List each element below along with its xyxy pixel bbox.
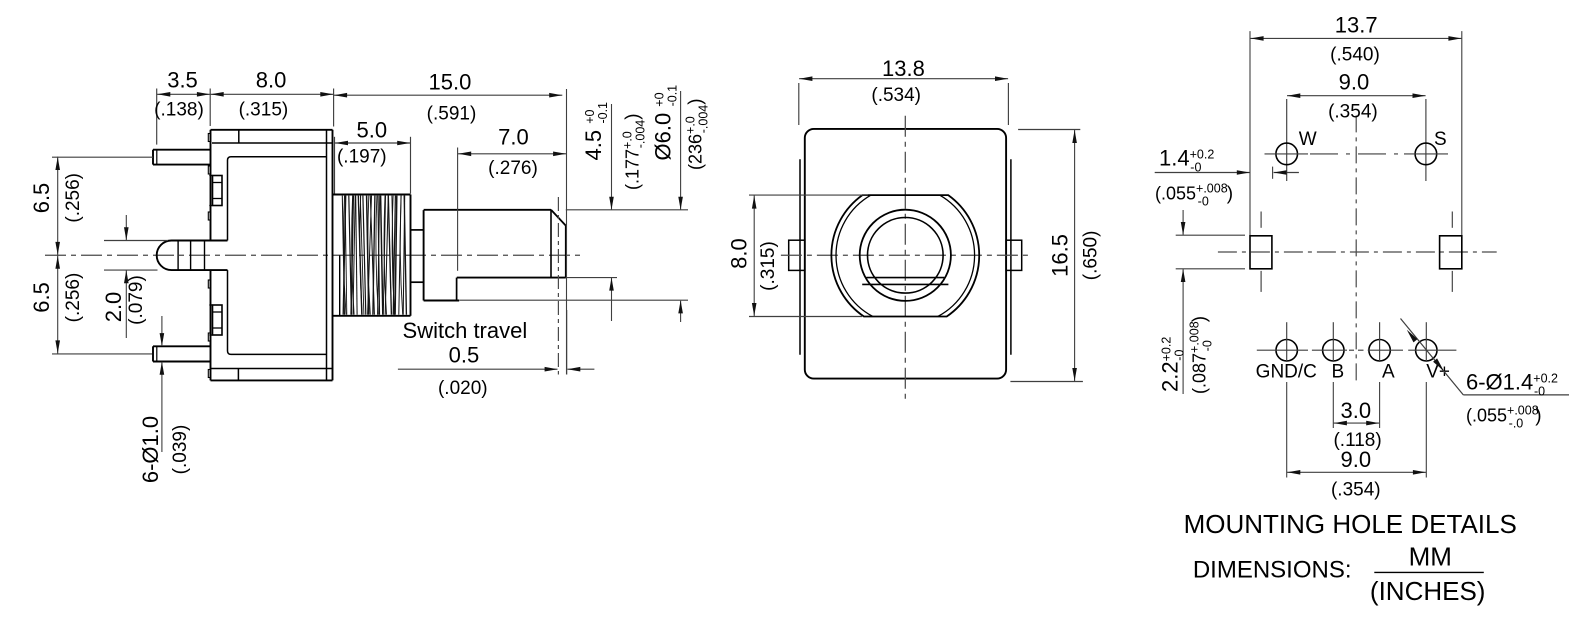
svg-text:9.0: 9.0 bbox=[1339, 70, 1370, 95]
svg-text:(.197): (.197) bbox=[337, 146, 387, 167]
svg-text:GND/C: GND/C bbox=[1256, 361, 1317, 382]
svg-text:(.354): (.354) bbox=[1328, 101, 1378, 122]
svg-text:6-Ø1.0: 6-Ø1.0 bbox=[138, 416, 163, 483]
svg-text:(.591): (.591) bbox=[427, 104, 477, 125]
left side tab bbox=[789, 240, 805, 270]
hole GND/C bbox=[1276, 340, 1297, 361]
svg-text:3.5: 3.5 bbox=[167, 68, 198, 93]
hole S bbox=[1404, 143, 1448, 165]
dashed line between W and S bbox=[1310, 153, 1402, 155]
svg-text:W: W bbox=[1299, 129, 1317, 150]
dimension 4.5 +0/-0.1 (.177) shaft flat height bbox=[566, 102, 688, 321]
hole W bbox=[1265, 143, 1309, 165]
svg-text:(INCHES): (INCHES) bbox=[1370, 576, 1486, 606]
dimension 1.4 +0.2/-0 (.055) hole offset bbox=[1155, 145, 1299, 208]
svg-text:0.5: 0.5 bbox=[449, 342, 480, 367]
front view crosshair center lines bbox=[781, 116, 1029, 402]
svg-text:Switch travel: Switch travel bbox=[403, 318, 528, 343]
svg-text:(.315): (.315) bbox=[758, 241, 779, 291]
shaft travel phantom line bbox=[557, 197, 559, 375]
dimension 9.0 (.354) bottom bbox=[1287, 382, 1427, 500]
label B bbox=[1332, 361, 1345, 382]
svg-text:(.256): (.256) bbox=[63, 273, 84, 323]
dimension 13.8 (.534) body width bbox=[799, 56, 1009, 125]
hole B bbox=[1323, 340, 1344, 361]
svg-text:(.079): (.079) bbox=[126, 275, 147, 325]
label V+ bbox=[1426, 361, 1450, 382]
detent clip upper (side view) bbox=[209, 176, 222, 206]
svg-text:13.8: 13.8 bbox=[882, 56, 925, 81]
bottom terminal pin bbox=[153, 346, 211, 361]
svg-text:MM: MM bbox=[1409, 542, 1452, 572]
leader note 6-Ø1.4 +0.2/-0 (.055) bbox=[1401, 319, 1569, 431]
svg-text:(.276): (.276) bbox=[488, 158, 538, 179]
mounting tab right bbox=[1440, 212, 1462, 292]
title MOUNTING HOLE DETAILS bbox=[1184, 509, 1517, 539]
svg-text:(.534): (.534) bbox=[871, 85, 921, 106]
svg-text:3.0: 3.0 bbox=[1341, 398, 1372, 423]
svg-text:(.540): (.540) bbox=[1330, 44, 1380, 65]
svg-text:(.256): (.256) bbox=[63, 173, 84, 223]
svg-text:(.354): (.354) bbox=[1331, 479, 1381, 500]
svg-text:6.5: 6.5 bbox=[29, 282, 54, 313]
svg-text:(.315): (.315) bbox=[239, 99, 289, 120]
svg-text:MOUNTING HOLE DETAILS: MOUNTING HOLE DETAILS bbox=[1184, 509, 1517, 539]
DIMENSIONS: MM/(INCHES) note bbox=[1193, 542, 1486, 607]
label S bbox=[1434, 129, 1447, 150]
dimension 15.0 (.591) shaft length bbox=[334, 70, 567, 375]
svg-text:8.0: 8.0 bbox=[727, 238, 752, 269]
dimension 16.5 (.650) body height bbox=[1010, 130, 1101, 382]
dimension 3.0 (.118) bbox=[1333, 382, 1381, 451]
switch travel note and 0.5 (.020) dimension bbox=[398, 310, 595, 399]
dimension 2.2 +0.2/-0 (.087) tab height bbox=[1158, 210, 1246, 394]
serration ticks on body left edge bbox=[208, 134, 210, 378]
dimension 8.0 (.315) body depth bbox=[210, 68, 333, 127]
threaded bushing (hatched) bbox=[333, 195, 411, 316]
encoder body (side view) outline bbox=[211, 130, 333, 381]
center axis line (side view) bbox=[45, 254, 583, 256]
dimension 3.5 (.138) pin length bbox=[154, 68, 210, 145]
hole V+ bbox=[1416, 340, 1437, 361]
dimension 13.7 (.540) bbox=[1250, 13, 1462, 236]
top terminal pin bbox=[153, 150, 211, 165]
svg-text:A: A bbox=[1382, 361, 1395, 382]
svg-text:(.039): (.039) bbox=[170, 425, 191, 475]
svg-text:Ø6.0 +0-0.1: Ø6.0 +0-0.1 bbox=[651, 85, 680, 161]
svg-text:B: B bbox=[1332, 361, 1345, 382]
label W bbox=[1299, 129, 1317, 150]
svg-text:8.0: 8.0 bbox=[256, 68, 287, 93]
dimension 6-Ø1.0 (.039) pin diameter bbox=[138, 316, 191, 483]
svg-text:S: S bbox=[1434, 129, 1447, 150]
right side tab bbox=[1006, 240, 1022, 270]
svg-text:DIMENSIONS:: DIMENSIONS: bbox=[1193, 557, 1352, 584]
svg-text:(.650): (.650) bbox=[1080, 231, 1101, 281]
dimension 2.0 (.079) lug thickness bbox=[101, 215, 168, 338]
dimension 7.0 (.276) shaft flat length bbox=[458, 125, 567, 271]
hole A bbox=[1369, 340, 1390, 361]
shaft flat chords (front view) bbox=[862, 278, 948, 285]
svg-text:6-Ø1.4+0.2-0: 6-Ø1.4+0.2-0 bbox=[1466, 370, 1558, 399]
svg-text:(.138): (.138) bbox=[154, 99, 204, 120]
shaft end chamfer circle (front view) bbox=[868, 218, 944, 294]
left side plate edge bbox=[799, 159, 801, 354]
svg-text:15.0: 15.0 bbox=[428, 70, 471, 95]
right side plate edge bbox=[1010, 159, 1012, 354]
svg-text:7.0: 7.0 bbox=[498, 125, 529, 150]
svg-text:16.5: 16.5 bbox=[1047, 234, 1072, 277]
svg-text:4.5 +0-0.1: 4.5 +0-0.1 bbox=[581, 102, 610, 161]
label A bbox=[1382, 361, 1395, 382]
svg-text:13.7: 13.7 bbox=[1335, 13, 1378, 38]
detent clip lower (side view) bbox=[209, 305, 222, 335]
shaft step between bushing and collar bbox=[411, 230, 424, 282]
dimension 6.5/6.5 (.256) pin spacing bbox=[29, 157, 153, 354]
mounting: horizontal center line through tabs bbox=[1218, 251, 1497, 253]
svg-text:5.0: 5.0 bbox=[357, 118, 388, 143]
shaft with flat and chamfer bbox=[424, 210, 566, 278]
dimension 5.0 (.197) bushing length bbox=[335, 118, 411, 194]
dimension 8.0 (.315) bushing flats bbox=[727, 195, 869, 316]
shaft circle (front view) bbox=[860, 210, 951, 301]
label GND/C bbox=[1256, 361, 1317, 382]
dimension 9.0 (.354) top bbox=[1287, 70, 1426, 182]
dimension Ø6.0 +0/-0.1 (236) shaft diameter bbox=[459, 85, 710, 322]
shaft collar bbox=[424, 210, 460, 300]
mounting tab left bbox=[1250, 212, 1272, 292]
svg-text:2.0: 2.0 bbox=[101, 292, 126, 323]
svg-text:9.0: 9.0 bbox=[1341, 447, 1372, 472]
center mounting lug with rounded end bbox=[157, 241, 228, 271]
bushing circle with flats (front view) bbox=[831, 195, 979, 316]
front view body rounded square bbox=[805, 129, 1006, 379]
svg-text:6.5: 6.5 bbox=[29, 183, 54, 214]
svg-text:(.020): (.020) bbox=[438, 378, 488, 399]
mounting: vertical center line bbox=[1355, 115, 1357, 385]
bottom holes center ticks bbox=[1257, 322, 1457, 361]
